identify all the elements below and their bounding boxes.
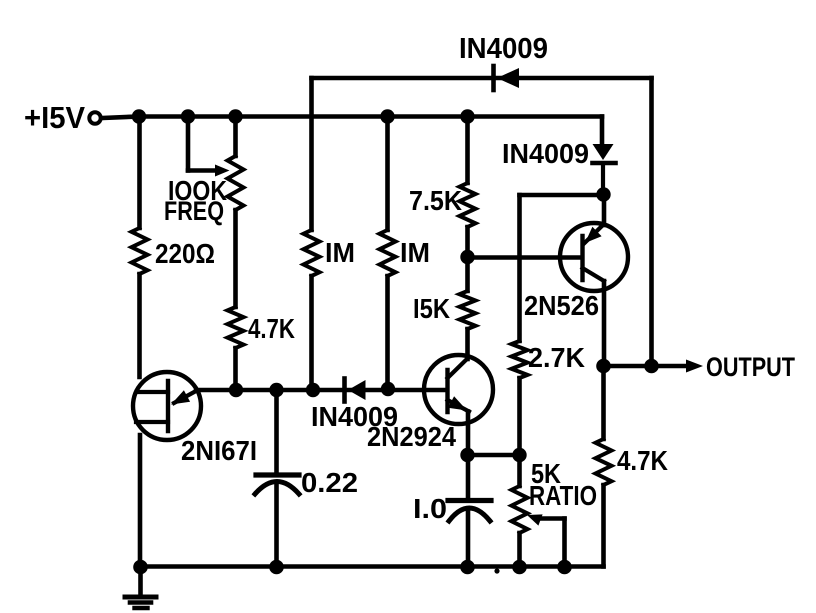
svg-text:I5K: I5K: [413, 293, 450, 324]
transistor Q3 2N526: [560, 223, 628, 291]
label 220 ohm: [155, 238, 215, 269]
label 4.7K right: [617, 445, 668, 476]
wire 4.7K bottom lead: [233, 348, 238, 390]
svg-text:2NI67I: 2NI67I: [181, 435, 257, 466]
wire right feedback drop: [649, 78, 654, 366]
wire 100K wiper from rail: [188, 117, 217, 171]
junction output dots: [596, 359, 659, 374]
svg-text:4.7K: 4.7K: [617, 445, 668, 476]
junction emitter node dots: [460, 448, 526, 462]
speck: [494, 568, 499, 573]
wire +15V rail: [139, 114, 602, 119]
wire Q3 base from 7.5K node: [468, 255, 582, 260]
wiper arrow 100K: [215, 165, 230, 177]
capacitor 1.0: [448, 501, 491, 522]
wire Q3 emitter from D2 node: [602, 194, 607, 225]
wire 0.22 bottom lead: [274, 483, 279, 567]
label OUTPUT: [706, 352, 795, 382]
svg-text:2N526: 2N526: [524, 290, 599, 321]
resistor 15K: [460, 291, 476, 329]
label 1M a: [325, 237, 355, 268]
wire 100K to 4.7K: [233, 210, 238, 307]
junction emitter row dots: [229, 382, 395, 397]
diode IN4009 top D1: [494, 66, 520, 90]
label 5K: [531, 458, 561, 489]
label 1.0: [413, 493, 447, 524]
wire 0.22 top lead: [274, 390, 279, 472]
svg-text:2.7K: 2.7K: [528, 342, 585, 373]
wire 1M-a riser (crossover, no dot): [309, 78, 314, 230]
resistor 220 ohm: [132, 228, 148, 274]
wire 5K pot top lead: [517, 455, 522, 486]
junction D2 / Q3 emitter node: [596, 187, 610, 201]
wire 2.7K top lead: [517, 195, 522, 341]
resistor 1M b: [380, 230, 396, 276]
wire rail corner to D2: [600, 117, 605, 146]
wire 7.5K top lead: [465, 117, 470, 184]
svg-text:IM: IM: [400, 237, 430, 268]
label IN4009 top: [459, 33, 548, 65]
svg-text:IM: IM: [325, 237, 355, 268]
wire 1.0 top lead: [466, 455, 471, 499]
wire 1M-b bottom lead: [385, 276, 390, 389]
transistor Q2 2N2924: [424, 355, 493, 424]
svg-text:FREQ: FREQ: [164, 196, 224, 226]
junction rail dots: [132, 109, 475, 123]
svg-text:0.22: 0.22: [301, 467, 358, 498]
transistor Q1 2N1671: [133, 372, 201, 440]
resistor 1M a: [304, 230, 320, 276]
potentiometer 100K: [228, 156, 244, 210]
label 2N1671: [181, 435, 257, 466]
wire Q2 emitter down: [466, 412, 471, 456]
svg-text:4.7K: 4.7K: [248, 313, 295, 344]
wire 5K wiper to rail: [539, 519, 565, 568]
label 1M b: [400, 237, 430, 268]
wire 1M-b top lead: [385, 117, 390, 231]
label +15V: [24, 100, 85, 135]
svg-text:+I5V: +I5V: [24, 100, 85, 135]
wire 220ohm bottom lead to Q1 base2: [137, 274, 142, 377]
wire emitter row: [196, 388, 447, 393]
label 15K: [413, 293, 450, 324]
wiper arrow 5K: [527, 514, 543, 525]
label 2.7K: [528, 342, 585, 373]
resistor 2.7K: [512, 341, 528, 378]
wire Q2 emitter to 2.7K node: [468, 453, 520, 458]
label 0.22: [301, 467, 358, 498]
node +15V terminal: [89, 112, 139, 123]
potentiometer 5K RATIO: [512, 486, 528, 533]
resistor 7.5K: [460, 183, 476, 227]
label 7.5K: [409, 185, 462, 216]
svg-text:220Ω: 220Ω: [155, 238, 215, 269]
resistor 4.7K right: [596, 439, 612, 485]
label IN4009 mid: [311, 401, 398, 432]
label FREQ: [164, 196, 224, 226]
wire 220ohm top lead: [137, 117, 142, 229]
label 4.7K left: [248, 313, 295, 344]
svg-text:2N2924: 2N2924: [367, 421, 456, 452]
junction 7.5K/15K node: [460, 250, 474, 264]
wire Q3 collector down: [602, 281, 607, 366]
wire ground rail: [140, 564, 604, 569]
ground: [125, 567, 156, 609]
svg-text:I.0: I.0: [413, 493, 447, 524]
output arrow: [686, 360, 703, 373]
wire 7.5K to 15K: [465, 227, 470, 291]
label 2N526: [524, 290, 599, 321]
svg-text:IN4009: IN4009: [459, 33, 548, 65]
wire 1.0 bottom lead: [466, 509, 471, 567]
wire 15K to Q2 collector: [465, 329, 470, 359]
wire 5K pot bottom lead: [517, 533, 522, 567]
wire output row: [604, 364, 688, 369]
wire 1M-a bottom lead: [309, 276, 314, 390]
label 2N2924: [367, 421, 456, 452]
label IN4009 right: [502, 138, 589, 169]
svg-text:OUTPUT: OUTPUT: [706, 352, 795, 382]
svg-text:IN4009: IN4009: [502, 138, 589, 169]
diode IN4009 D3: [345, 379, 366, 402]
wire 100K top lead: [233, 117, 238, 157]
diode IN4009 D2 vertical: [593, 144, 616, 194]
capacitor 0.22: [255, 475, 299, 494]
wire 4.7K right top lead: [601, 366, 606, 439]
label 100K: [168, 175, 227, 206]
junction ground rail dots: [133, 560, 572, 575]
wire 2.7K bottom lead: [517, 378, 522, 455]
wire Q1 base1 to ground rail: [138, 435, 143, 567]
svg-text:7.5K: 7.5K: [409, 185, 462, 216]
wire top feedback: [312, 76, 652, 81]
label RATIO: [529, 480, 597, 511]
svg-text:RATIO: RATIO: [529, 480, 597, 511]
wire D2 node to 2.7K top: [520, 193, 604, 198]
wire 4.7K right bottom lead: [601, 485, 606, 567]
resistor 4.7K left: [228, 307, 244, 348]
